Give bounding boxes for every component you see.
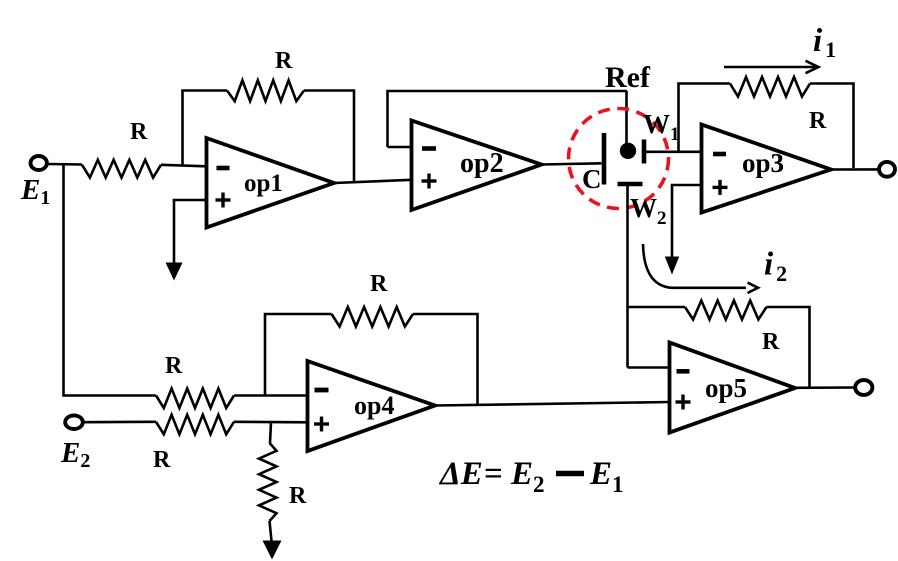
svg-text:R: R bbox=[809, 108, 827, 134]
terminal op5 output bbox=[855, 380, 872, 395]
svg-text:R: R bbox=[165, 353, 183, 379]
svg-text:W1: W1 bbox=[643, 109, 680, 145]
wire op3 non-inverting input to ground bbox=[672, 185, 702, 257]
resistor R (op3 feedback) bbox=[730, 77, 810, 97]
svg-text:R: R bbox=[289, 483, 307, 509]
wire E2 to resistor R5 bbox=[83, 420, 156, 423]
op-amp op5 bbox=[670, 343, 796, 433]
wire op1 feedback left vertical bbox=[183, 91, 228, 166]
resistor R4 (op4 feedback R) bbox=[332, 307, 414, 327]
wire E1 to resistor R1 bbox=[47, 163, 82, 166]
svg-text:op1: op1 bbox=[244, 170, 283, 197]
svg-text:E1: E1 bbox=[20, 174, 50, 209]
wire W2 node to op5 inverting input bbox=[628, 366, 670, 369]
resistor R3 (op4 inverting input R) bbox=[156, 389, 234, 409]
svg-text:i2: i2 bbox=[764, 247, 787, 287]
svg-text:op5: op5 bbox=[705, 373, 747, 403]
svg-text:op2: op2 bbox=[460, 148, 504, 179]
svg-text:R: R bbox=[153, 447, 171, 473]
op-amp op4 bbox=[308, 361, 436, 451]
wire op5 feedback top bbox=[628, 306, 686, 309]
svg-text:E2: E2 bbox=[60, 437, 90, 472]
svg-text:op4: op4 bbox=[354, 391, 394, 420]
wire E1 vertical down to op4 input bbox=[64, 164, 157, 396]
wire R3 to op4 inverting input bbox=[234, 394, 308, 397]
wire op2 output to counter electrode C bbox=[542, 163, 602, 164]
wire op1 output to op2 non-inverting input bbox=[334, 180, 412, 183]
arrow i1 bbox=[724, 66, 816, 69]
wire R6 to ground arrow bbox=[270, 521, 272, 541]
wire R1 to op1 inverting input (node with feedback) bbox=[161, 165, 207, 167]
terminal E1 bbox=[31, 156, 47, 170]
counter electrode C bar bbox=[602, 133, 607, 185]
working electrode W2 bar bbox=[618, 182, 643, 186]
svg-text:R: R bbox=[275, 48, 293, 74]
op-amp op1 bbox=[207, 138, 335, 228]
ground arrow below R6 bbox=[263, 541, 282, 560]
wire op3 output bbox=[831, 168, 878, 171]
op5 plus sign bbox=[676, 400, 691, 403]
op2 minus sign bbox=[422, 146, 436, 151]
wire Ref vertical down to reference electrode bbox=[625, 91, 628, 145]
ground arrow at op3 + input bbox=[665, 257, 679, 275]
wire op5 feedback right vertical to output bbox=[767, 307, 810, 388]
wire op2 feedback loop to Ref electrode bbox=[388, 91, 628, 147]
svg-text:R: R bbox=[130, 119, 148, 145]
resistor R5 (op4 non-inverting input R) bbox=[156, 415, 234, 435]
wire op4 feedback right vertical to output bbox=[413, 314, 478, 404]
resistor R6 (op4 + input to ground) bbox=[259, 443, 277, 521]
op-amp op3 bbox=[702, 125, 832, 213]
svg-text:op3: op3 bbox=[742, 148, 784, 178]
wire op5 output bbox=[795, 386, 855, 389]
svg-text:R: R bbox=[762, 329, 780, 355]
svg-text:C: C bbox=[582, 164, 602, 194]
curved arrow i2 bbox=[643, 244, 746, 288]
svg-text:ΔE = E2: ΔE = E2 bbox=[438, 456, 545, 497]
cell boundary: red dashed circle bbox=[569, 109, 669, 209]
terminal E2 bbox=[65, 415, 83, 429]
wire op2 inverting input stub bbox=[388, 146, 412, 149]
wire op3 feedback right vertical to output bbox=[810, 84, 854, 169]
wire op3 feedback left vertical bbox=[679, 84, 731, 153]
svg-text:E1: E1 bbox=[589, 456, 624, 497]
op5 minus sign bbox=[677, 369, 690, 374]
ground arrow at op1 + input bbox=[166, 263, 183, 281]
reference electrode dot (Ref) bbox=[620, 143, 636, 159]
working electrode W1 bar bbox=[642, 140, 647, 164]
resistor R1 (input R of op1) bbox=[82, 160, 161, 178]
wire op1 non-inverting input to ground bbox=[174, 200, 207, 263]
op4 plus sign bbox=[314, 422, 329, 425]
wire op4 feedback left vertical bbox=[265, 314, 332, 396]
op3 minus sign bbox=[713, 152, 726, 157]
op-amp op2 bbox=[412, 121, 542, 211]
wire R5 to op4 non-inverting input bbox=[234, 420, 308, 423]
wire op1 feedback right vertical to output bbox=[304, 91, 354, 183]
wire W1 to op3 inverting input bbox=[646, 151, 702, 154]
op3 plus sign bbox=[713, 186, 728, 189]
svg-text:i1: i1 bbox=[813, 23, 836, 62]
formula minus bar bbox=[556, 471, 584, 477]
svg-text:Ref: Ref bbox=[605, 61, 651, 94]
op1 minus sign bbox=[217, 166, 230, 171]
resistor R2 (op1 feedback R) bbox=[227, 80, 304, 101]
wire junction to grounding resistor R6 bbox=[270, 422, 271, 443]
op2 plus sign bbox=[422, 179, 437, 182]
wire W2 down to op5 bbox=[626, 186, 629, 368]
svg-text:W2: W2 bbox=[630, 193, 667, 229]
svg-text:R: R bbox=[370, 271, 388, 297]
resistor R (op5 feedback) bbox=[685, 301, 767, 320]
op4 minus sign bbox=[315, 388, 329, 393]
terminal op3 output bbox=[879, 162, 895, 177]
op1 plus sign bbox=[216, 198, 231, 201]
wire op4 output to op5 non-inverting input bbox=[435, 402, 670, 406]
